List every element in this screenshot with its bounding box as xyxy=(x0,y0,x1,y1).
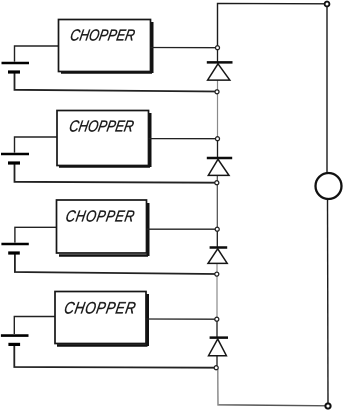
svg-text:CHOPPER: CHOPPER xyxy=(64,208,136,225)
svg-text:CHOPPER: CHOPPER xyxy=(68,118,136,135)
svg-text:CHOPPER: CHOPPER xyxy=(69,27,137,44)
svg-text:CHOPPER: CHOPPER xyxy=(63,299,137,317)
